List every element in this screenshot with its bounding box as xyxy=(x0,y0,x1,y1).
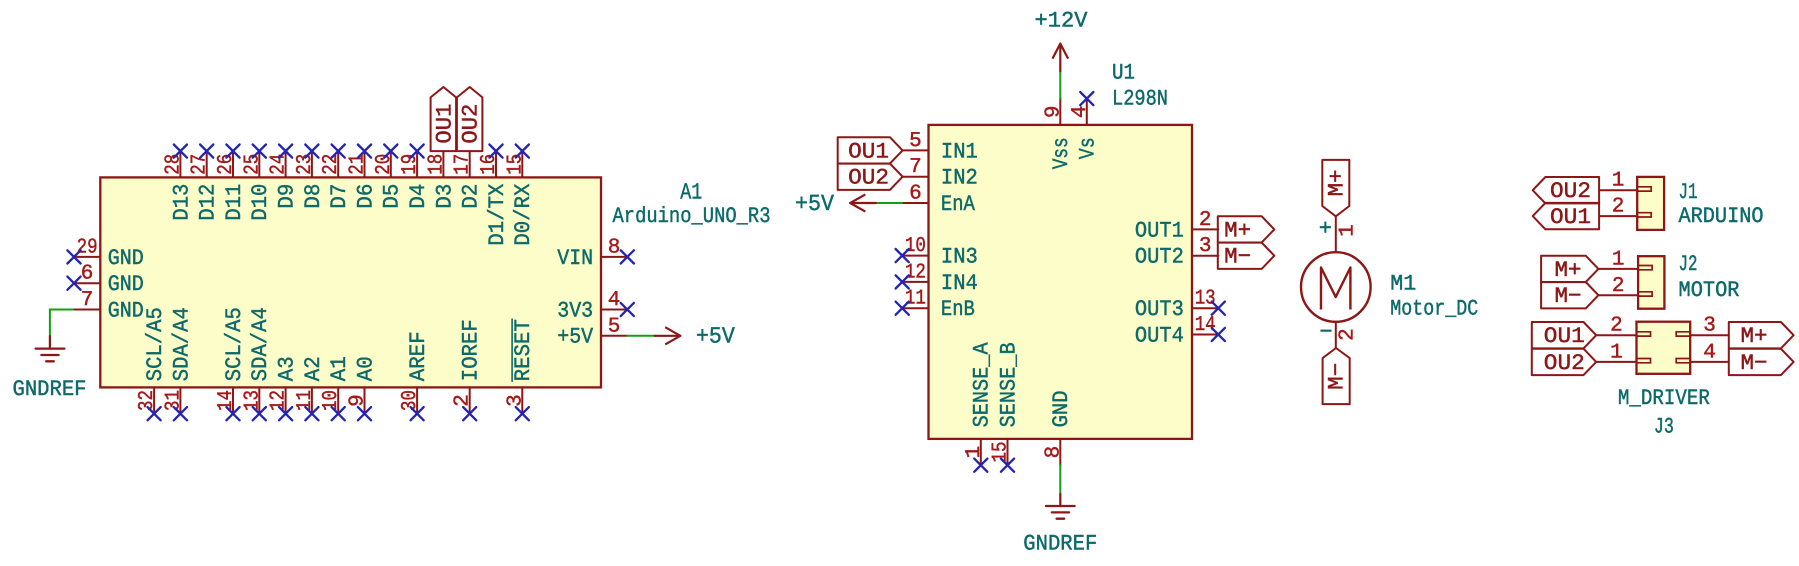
svg-text:+5V: +5V xyxy=(557,325,594,350)
pin 5 +5V xyxy=(557,315,627,349)
wire +12V pin9 xyxy=(1059,71,1061,98)
svg-text:+5V: +5V xyxy=(696,324,735,350)
pin 1 of J2 xyxy=(1598,248,1638,271)
svg-text:J3: J3 xyxy=(1654,415,1674,440)
hierarchical label OU1 at J3 pin2 xyxy=(1532,322,1596,349)
svg-text:J2: J2 xyxy=(1679,252,1698,277)
svg-text:EnA: EnA xyxy=(941,192,976,217)
power GNDREF ground symbol xyxy=(13,336,87,402)
svg-text:3: 3 xyxy=(1703,315,1716,338)
wire +5V pin5 xyxy=(627,335,654,337)
svg-text:29: 29 xyxy=(77,236,98,259)
pin 1 + of M1 xyxy=(1319,216,1360,252)
pin 22 D7 xyxy=(320,151,352,209)
svg-text:M+: M+ xyxy=(1741,324,1768,349)
svg-text:M+: M+ xyxy=(1224,218,1251,243)
svg-text:9: 9 xyxy=(347,394,370,407)
svg-text:8: 8 xyxy=(608,236,621,259)
value Arduino_UNO_R3 xyxy=(613,204,771,229)
no-connect pin 11 xyxy=(305,407,318,420)
hierarchical label M- at motor xyxy=(1323,348,1350,404)
pin 14 OUT4 xyxy=(1135,314,1218,348)
power +12V arrow xyxy=(1035,9,1089,72)
svg-text:SENSE_B: SENSE_B xyxy=(996,342,1021,427)
no-connect pin 25 xyxy=(253,145,266,158)
svg-text:8: 8 xyxy=(1042,446,1065,459)
pin 30 AREF xyxy=(399,331,431,414)
svg-text:OU1: OU1 xyxy=(1550,205,1591,230)
svg-text:6: 6 xyxy=(81,263,94,286)
pin 24 D9 xyxy=(268,151,300,209)
svg-text:D3: D3 xyxy=(432,184,457,209)
no-connect pin 10 xyxy=(332,407,345,420)
pin 23 D8 xyxy=(294,151,326,209)
pin 11 A2 xyxy=(294,356,326,414)
svg-text:A1: A1 xyxy=(680,179,702,205)
svg-text:D6: D6 xyxy=(353,184,378,209)
no-connect pin 32 xyxy=(148,407,161,420)
connector J3 M_DRIVER body xyxy=(1637,322,1691,374)
svg-text:13: 13 xyxy=(1195,288,1216,311)
no-connect pin 13 xyxy=(253,407,266,420)
hierarchical label OU1 xyxy=(431,87,458,151)
pin 28 D13 xyxy=(162,151,194,221)
pin 31 SDA/A4 xyxy=(162,307,194,414)
pin 4 3V3 xyxy=(557,289,627,323)
svg-text:IN1: IN1 xyxy=(941,139,978,164)
svg-text:14: 14 xyxy=(1195,314,1216,337)
svg-text:D2: D2 xyxy=(459,184,484,209)
hierarchical label M+ at J3 pin3 xyxy=(1729,322,1794,349)
pin 25 D10 xyxy=(241,151,273,221)
svg-text:1: 1 xyxy=(963,446,986,459)
hierarchical label M+ at J2 pin1 xyxy=(1541,256,1598,283)
connector J1 ARDUINO body xyxy=(1637,177,1664,230)
pin 2 of J2 xyxy=(1598,275,1638,298)
power +5V arrow at EnA xyxy=(795,191,876,217)
value ARDUINO xyxy=(1679,204,1764,229)
pin 4 Vs xyxy=(1069,99,1101,160)
pin 1 of J3 xyxy=(1596,341,1636,364)
svg-text:A2: A2 xyxy=(301,356,326,381)
pin 32 SCL/A5 xyxy=(136,307,168,414)
no-connect pin 15 xyxy=(1001,459,1014,472)
svg-text:OU1: OU1 xyxy=(1544,324,1585,349)
hierarchical label OU1 at J1 pin2 xyxy=(1533,203,1599,230)
svg-text:Vs: Vs xyxy=(1076,137,1101,159)
pin 10 IN3 xyxy=(902,235,978,269)
pin 8 VIN xyxy=(557,236,627,270)
svg-text:U1: U1 xyxy=(1112,61,1135,86)
svg-text:3V3: 3V3 xyxy=(557,298,593,323)
pin 2 of J1 xyxy=(1599,196,1637,219)
symbol U1 L298N body xyxy=(929,125,1193,439)
svg-text:5: 5 xyxy=(608,315,621,338)
pin 7 GND xyxy=(74,289,144,323)
value MOTOR xyxy=(1679,278,1740,303)
no-connect pin 27 xyxy=(200,145,213,158)
pin 29 GND xyxy=(74,236,144,270)
value Motor_DC xyxy=(1390,297,1478,322)
pin 9 A0 xyxy=(347,356,379,414)
svg-text:Motor_DC: Motor_DC xyxy=(1390,297,1478,322)
svg-text:EnB: EnB xyxy=(941,297,975,322)
svg-text:D7: D7 xyxy=(327,184,352,209)
pin 18 D3 xyxy=(425,151,457,209)
svg-text:18: 18 xyxy=(425,154,448,175)
svg-text:AREF: AREF xyxy=(406,331,431,381)
pin 15 SENSE_B xyxy=(990,342,1022,465)
reference U1 xyxy=(1112,61,1135,86)
pin 21 D6 xyxy=(347,151,379,209)
no-connect pin 16 xyxy=(489,145,502,158)
pin 15 D0/RX xyxy=(504,151,536,246)
svg-text:4: 4 xyxy=(1069,105,1092,118)
svg-text:11: 11 xyxy=(905,288,926,311)
reference A1 xyxy=(680,179,702,205)
pin 4 of J3 xyxy=(1690,341,1729,364)
no-connect pin 4 xyxy=(621,303,634,316)
connector J2 MOTOR body xyxy=(1638,256,1664,309)
svg-text:1: 1 xyxy=(1612,170,1625,193)
svg-text:D0/RX: D0/RX xyxy=(511,184,536,246)
svg-text:1: 1 xyxy=(1612,248,1625,271)
svg-text:VIN: VIN xyxy=(557,246,593,271)
power +5V arrow xyxy=(655,324,735,350)
svg-text:D12: D12 xyxy=(196,184,221,221)
svg-text:OU2: OU2 xyxy=(1550,179,1591,204)
pin 8 GND xyxy=(1042,390,1074,465)
pin 6 EnA xyxy=(902,183,975,217)
svg-text:RESET: RESET xyxy=(511,319,536,381)
svg-text:D1/TX: D1/TX xyxy=(485,184,510,246)
hierarchical label OU1 at IN1 xyxy=(838,137,903,164)
pin 2 - of M1 xyxy=(1319,320,1359,348)
pin 20 D5 xyxy=(373,151,405,209)
svg-text:+12V: +12V xyxy=(1035,9,1089,34)
no-connect pin 9 xyxy=(358,407,371,420)
svg-text:A0: A0 xyxy=(353,356,378,381)
no-connect pin 19 xyxy=(411,145,424,158)
svg-text:2: 2 xyxy=(452,394,475,407)
svg-text:A3: A3 xyxy=(275,356,300,381)
reference J2 xyxy=(1679,252,1698,277)
pin 14 SCL/A5 xyxy=(215,307,247,414)
pin 11 EnB xyxy=(902,288,975,322)
svg-text:GNDREF: GNDREF xyxy=(13,377,87,402)
no-connect pin 24 xyxy=(279,145,292,158)
pin 1 of J1 xyxy=(1599,170,1637,193)
no-connect pin 26 xyxy=(226,145,239,158)
symbol A1 Arduino_UNO_R3 body xyxy=(100,177,601,387)
svg-text:D8: D8 xyxy=(301,184,326,209)
no-connect pin 21 xyxy=(358,145,371,158)
power GNDREF ground symbol under U1 xyxy=(1023,494,1097,557)
svg-text:+5V: +5V xyxy=(795,191,834,217)
svg-text:6: 6 xyxy=(909,183,922,206)
svg-text:OU2: OU2 xyxy=(848,166,889,191)
reference J3 xyxy=(1654,415,1674,440)
pin 13 SDA/A4 xyxy=(241,307,273,414)
svg-text:12: 12 xyxy=(905,261,926,284)
svg-text:3: 3 xyxy=(1199,235,1212,258)
no-connect pin 8 xyxy=(621,250,634,263)
wire pin7 to ground xyxy=(50,310,74,337)
pin 27 D12 xyxy=(189,151,221,221)
motor M1 Motor_DC body xyxy=(1301,252,1371,322)
no-connect pin 6 xyxy=(67,277,80,290)
pin 26 D11 xyxy=(215,151,247,221)
svg-text:M+: M+ xyxy=(1555,258,1582,283)
pin 5 IN1 xyxy=(902,130,978,164)
svg-text:2: 2 xyxy=(1612,196,1625,219)
svg-text:OUT1: OUT1 xyxy=(1135,218,1184,243)
no-connect pin 13 xyxy=(1212,302,1225,315)
no-connect pin 28 xyxy=(174,145,187,158)
svg-text:4: 4 xyxy=(608,289,621,312)
svg-text:L298N: L298N xyxy=(1112,87,1168,112)
svg-text:17: 17 xyxy=(452,154,475,175)
svg-text:2: 2 xyxy=(1610,315,1623,338)
svg-text:GND: GND xyxy=(1049,390,1074,427)
svg-text:−: − xyxy=(1319,320,1332,345)
svg-text:SDA/A4: SDA/A4 xyxy=(169,307,194,381)
pin 7 IN2 xyxy=(902,156,978,190)
svg-text:D13: D13 xyxy=(169,184,194,221)
svg-text:OU2: OU2 xyxy=(459,104,484,144)
svg-text:9: 9 xyxy=(1042,105,1065,118)
svg-text:Vss: Vss xyxy=(1049,137,1074,169)
svg-text:D10: D10 xyxy=(248,184,273,221)
svg-text:D9: D9 xyxy=(275,184,300,209)
reference J1 xyxy=(1679,180,1698,205)
wire GND pin8 xyxy=(1059,465,1061,494)
svg-text:GND: GND xyxy=(108,298,144,323)
svg-text:SCL/A5: SCL/A5 xyxy=(143,307,168,381)
value L298N xyxy=(1112,87,1168,112)
pin 10 A1 xyxy=(320,356,352,414)
pin 6 GND xyxy=(74,263,144,297)
svg-text:SCL/A5: SCL/A5 xyxy=(222,307,247,381)
svg-text:2: 2 xyxy=(1336,328,1359,341)
svg-text:D5: D5 xyxy=(380,184,405,209)
no-connect pin 22 xyxy=(332,145,345,158)
svg-text:M+: M+ xyxy=(1325,169,1350,196)
svg-text:OU2: OU2 xyxy=(1544,351,1585,376)
value M_DRIVER xyxy=(1618,386,1710,411)
pin 1 SENSE_A xyxy=(963,342,995,466)
svg-text:SDA/A4: SDA/A4 xyxy=(248,307,273,381)
svg-text:MOTOR: MOTOR xyxy=(1679,278,1740,303)
no-connect pin 2 xyxy=(463,407,476,420)
svg-text:4: 4 xyxy=(1703,341,1716,364)
pin 3 OUT2 xyxy=(1135,235,1218,269)
svg-text:M−: M− xyxy=(1224,245,1251,270)
pin 12 IN4 xyxy=(902,261,978,295)
svg-text:GND: GND xyxy=(108,272,144,297)
svg-text:10: 10 xyxy=(905,235,926,258)
svg-text:M1: M1 xyxy=(1390,271,1416,296)
svg-text:IN3: IN3 xyxy=(941,245,978,270)
pin 3 RESET xyxy=(504,319,536,414)
hierarchical label M- at J2 pin2 xyxy=(1541,282,1598,309)
hierarchical label OU2 at IN2 xyxy=(838,164,903,191)
svg-text:1: 1 xyxy=(1336,224,1359,237)
no-connect pin 11 xyxy=(896,302,909,315)
pin 2 IOREF xyxy=(452,319,484,413)
svg-text:M_DRIVER: M_DRIVER xyxy=(1618,386,1710,411)
no-connect pin 3 xyxy=(516,407,529,420)
svg-text:1: 1 xyxy=(1610,341,1623,364)
no-connect pin 30 xyxy=(411,407,424,420)
no-connect pin 12 xyxy=(896,275,909,288)
svg-text:7: 7 xyxy=(909,156,922,179)
pin 19 D4 xyxy=(399,151,431,209)
svg-text:7: 7 xyxy=(81,289,94,312)
pin 9 Vss xyxy=(1042,99,1074,170)
pin 3 of J3 xyxy=(1690,315,1729,338)
svg-text:2: 2 xyxy=(1612,275,1625,298)
svg-text:A1: A1 xyxy=(327,356,352,381)
hierarchical label OU2 xyxy=(457,87,484,151)
svg-text:D11: D11 xyxy=(222,184,247,221)
svg-text:3: 3 xyxy=(504,394,527,407)
svg-text:M−: M− xyxy=(1325,363,1350,390)
hierarchical label M- at OUT2 xyxy=(1218,243,1275,270)
svg-text:OUT2: OUT2 xyxy=(1135,245,1184,270)
pin 13 OUT3 xyxy=(1135,288,1218,322)
no-connect pin 31 xyxy=(174,407,187,420)
svg-text:SENSE_A: SENSE_A xyxy=(970,342,995,428)
no-connect pin 14 xyxy=(226,407,239,420)
no-connect pin 12 xyxy=(279,407,292,420)
svg-text:J1: J1 xyxy=(1679,180,1698,205)
no-connect pin 15 xyxy=(516,145,529,158)
svg-text:OU1: OU1 xyxy=(432,104,457,144)
pin 12 A3 xyxy=(268,356,300,414)
svg-text:Arduino_UNO_R3: Arduino_UNO_R3 xyxy=(613,204,771,229)
pin 2 OUT1 xyxy=(1135,209,1218,243)
no-connect pin 23 xyxy=(305,145,318,158)
svg-text:OUT4: OUT4 xyxy=(1135,323,1184,348)
wire +5V EnA xyxy=(876,202,902,204)
no-connect pin 20 xyxy=(384,145,397,158)
no-connect pin 29 xyxy=(67,250,80,263)
svg-text:+: + xyxy=(1319,217,1332,242)
svg-text:2: 2 xyxy=(1199,209,1212,232)
svg-text:GND: GND xyxy=(108,246,144,271)
hierarchical label OU2 at J3 pin1 xyxy=(1532,349,1596,376)
hierarchical label M- at J3 pin4 xyxy=(1729,349,1794,376)
svg-text:IN4: IN4 xyxy=(941,271,978,296)
no-connect pin 14 xyxy=(1212,328,1225,341)
hierarchical label OU2 at J1 pin1 xyxy=(1533,177,1599,204)
hierarchical label M+ at motor xyxy=(1322,160,1349,216)
svg-text:GNDREF: GNDREF xyxy=(1023,532,1097,557)
hierarchical label M+ at OUT1 xyxy=(1218,216,1275,243)
svg-text:M−: M− xyxy=(1741,351,1768,376)
svg-text:OUT3: OUT3 xyxy=(1135,297,1184,322)
no-connect pin 4 xyxy=(1080,92,1093,105)
no-connect pin 1 xyxy=(974,459,987,472)
svg-text:5: 5 xyxy=(909,130,922,153)
svg-text:D4: D4 xyxy=(406,184,431,209)
svg-text:ARDUINO: ARDUINO xyxy=(1679,204,1764,229)
svg-text:IOREF: IOREF xyxy=(459,319,484,381)
svg-text:OU1: OU1 xyxy=(848,139,889,164)
pin 16 D1/TX xyxy=(478,151,510,246)
pin 17 D2 xyxy=(452,151,484,209)
svg-text:IN2: IN2 xyxy=(941,166,978,191)
no-connect pin 10 xyxy=(896,249,909,262)
pin 2 of J3 xyxy=(1596,315,1636,338)
svg-text:M−: M− xyxy=(1555,284,1582,309)
reference M1 xyxy=(1390,271,1416,296)
